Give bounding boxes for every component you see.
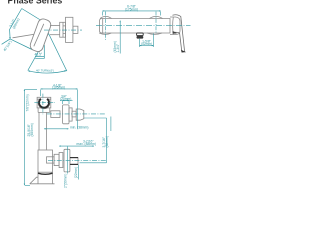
svg-text:(20mm): (20mm) [60, 97, 71, 101]
svg-text:min. (38mm): min. (38mm) [70, 125, 89, 129]
svg-text:40°(±5°): 40°(±5°) [3, 40, 13, 52]
svg-text:(175mm): (175mm) [125, 7, 138, 11]
svg-text:2"(50mm): 2"(50mm) [64, 174, 68, 188]
svg-text:45.5°: 45.5° [35, 53, 43, 57]
svg-text:(45mm): (45mm) [113, 41, 117, 52]
svg-text:(105mm): (105mm) [52, 86, 65, 90]
svg-text:(88mm): (88mm) [105, 136, 109, 147]
svg-text:(42mm): (42mm) [141, 42, 152, 46]
svg-text:(650mm): (650mm) [30, 123, 34, 136]
svg-text:7/8"(22mm): 7/8"(22mm) [25, 94, 29, 111]
svg-text:Phase Series: Phase Series [8, 0, 63, 6]
svg-text:max. (88mm): max. (88mm) [77, 142, 96, 146]
svg-text:40° TURN(±5°): 40° TURN(±5°) [36, 69, 54, 73]
svg-text:(22mm): (22mm) [74, 167, 78, 178]
